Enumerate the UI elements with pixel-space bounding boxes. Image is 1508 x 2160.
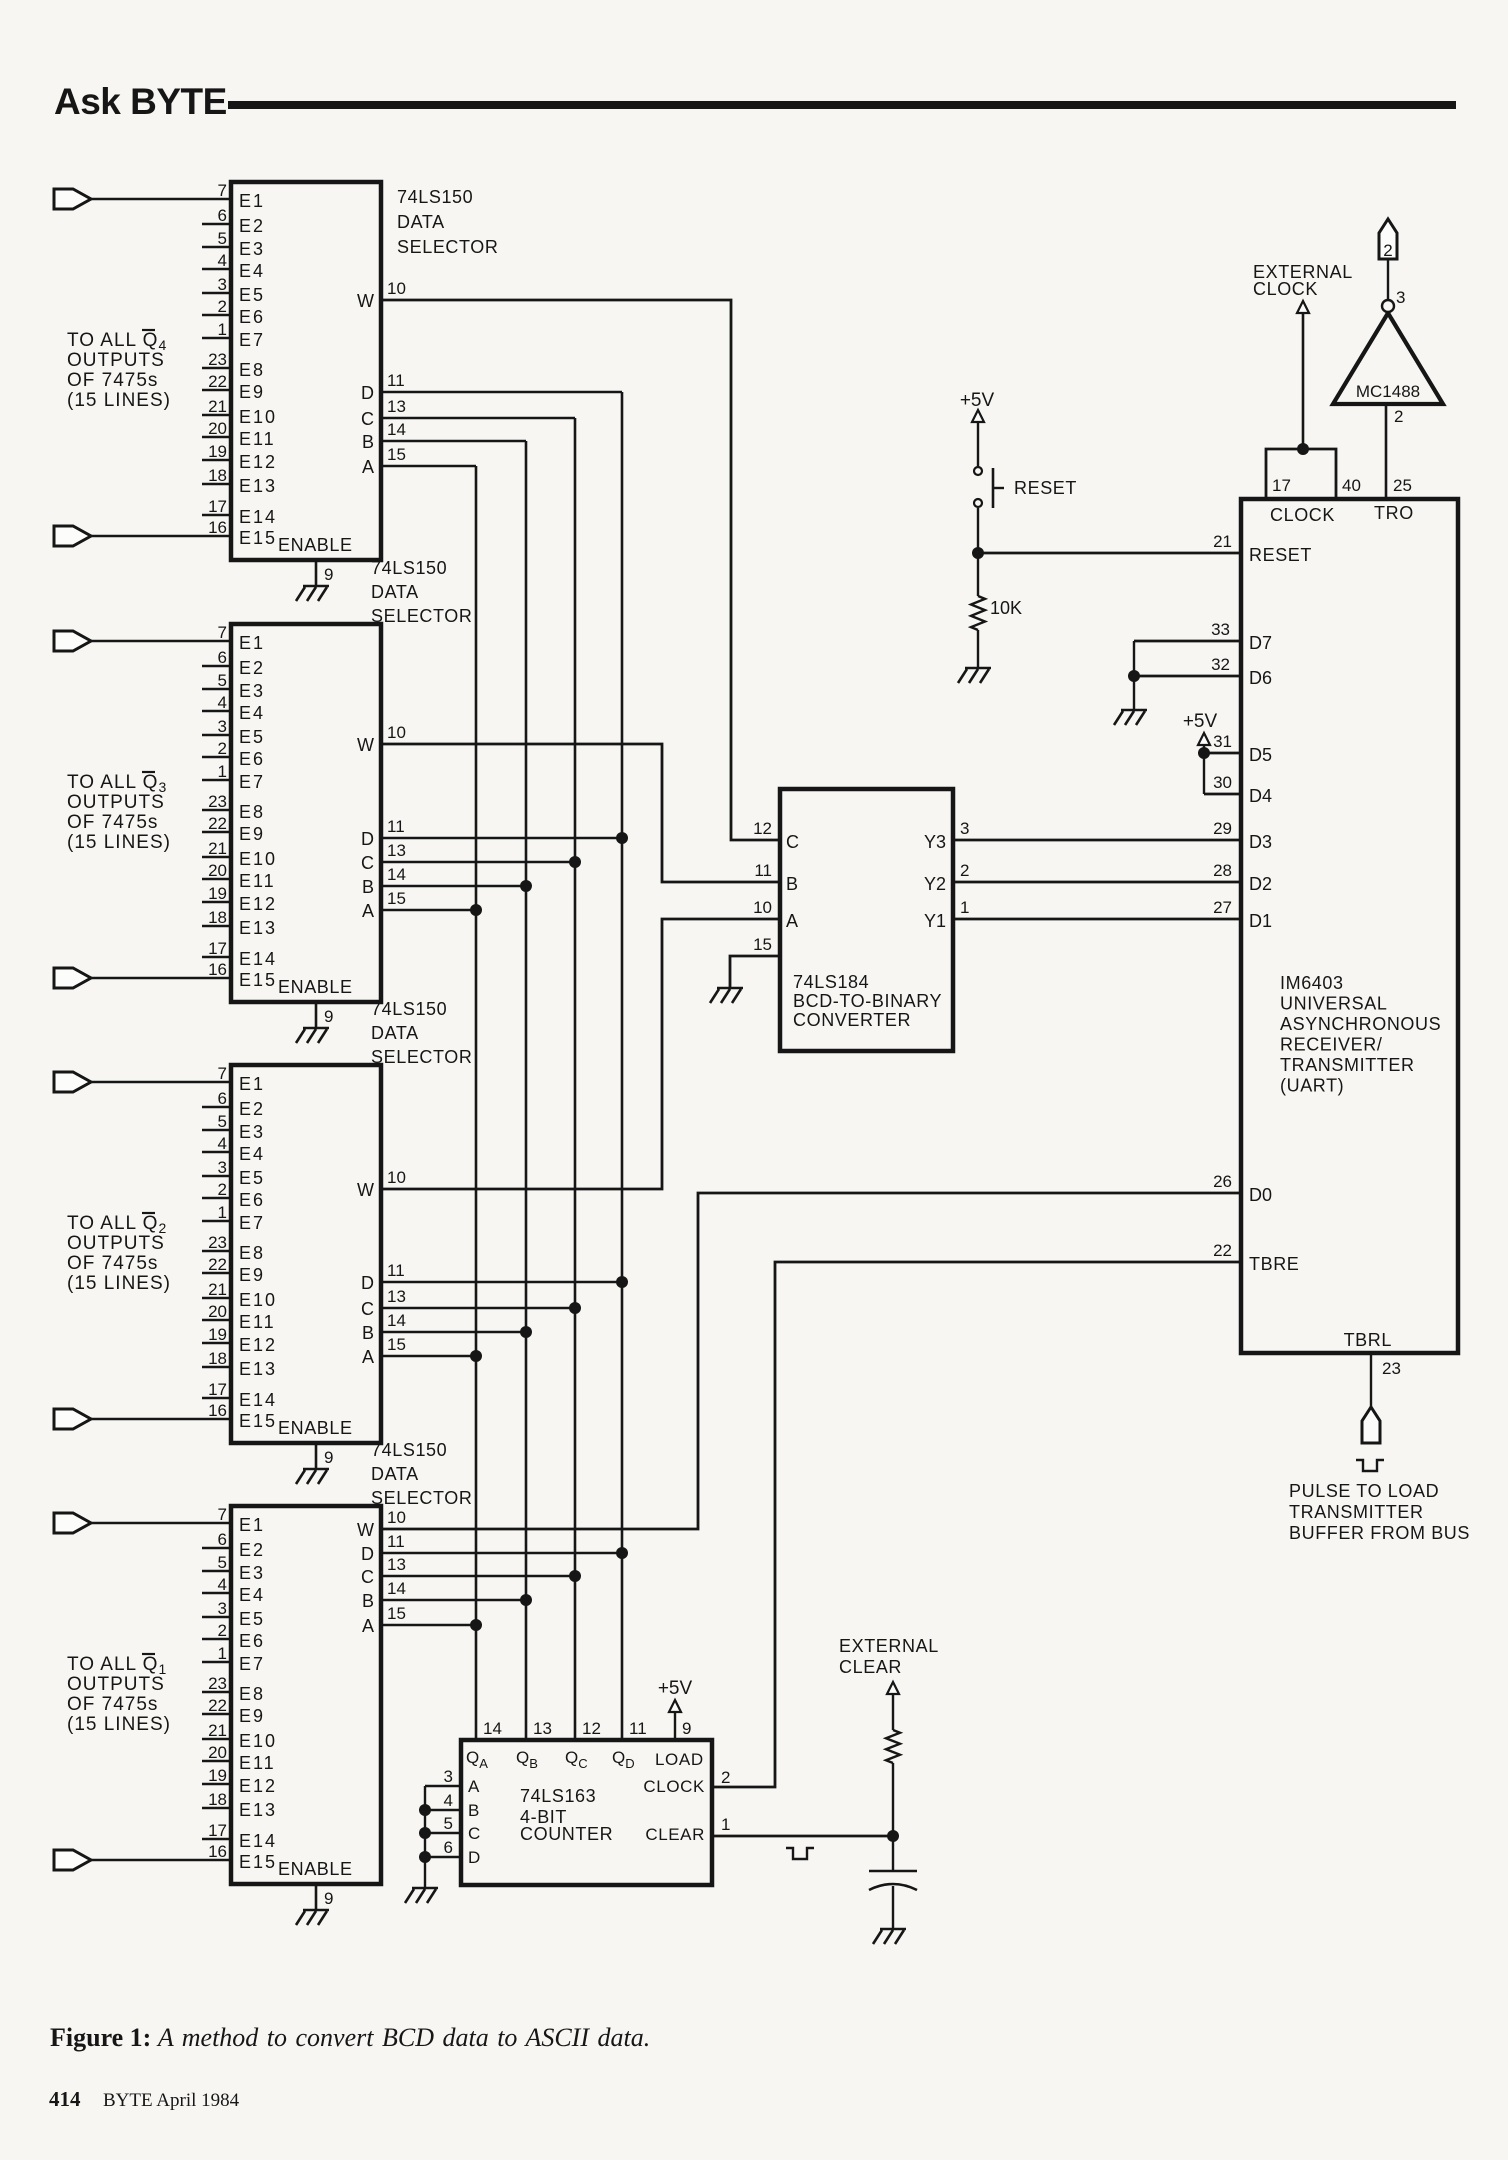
svg-text:13: 13 <box>387 1555 406 1574</box>
svg-text:CONVERTER: CONVERTER <box>793 1010 911 1030</box>
svg-text:9: 9 <box>324 565 333 584</box>
junction U8 D <box>419 1851 431 1863</box>
svg-text:16: 16 <box>208 1842 227 1861</box>
svg-text:74LS150: 74LS150 <box>397 187 473 207</box>
svg-text:A: A <box>362 901 374 921</box>
wire U3 D to bus <box>381 1281 622 1284</box>
svg-text:(15 LINES): (15 LINES) <box>67 1714 171 1735</box>
U2 pin 22 E9 stub <box>202 831 231 834</box>
U1 pin 7 E1 input wire from pointer <box>54 189 91 209</box>
U2 pin 7 E1 input wire from pointer <box>54 631 91 651</box>
svg-text:LOAD: LOAD <box>655 1750 704 1769</box>
svg-text:OUTPUTS: OUTPUTS <box>67 350 165 371</box>
ground below U8 inputs <box>412 1887 438 1890</box>
svg-text:3: 3 <box>218 1158 227 1177</box>
svg-text:20: 20 <box>208 861 227 880</box>
U4 pin 5 E3 stub <box>202 1570 231 1573</box>
svg-text:RECEIVER/: RECEIVER/ <box>1280 1035 1382 1055</box>
svg-text:E11: E11 <box>239 1753 276 1773</box>
svg-text:+5V: +5V <box>960 390 995 411</box>
svg-text:29: 29 <box>1213 819 1232 838</box>
svg-text:23: 23 <box>208 792 227 811</box>
svg-text:E13: E13 <box>239 918 277 938</box>
junction U2 C <box>569 856 581 868</box>
connector flag TBRL <box>1362 1407 1380 1443</box>
svg-text:21: 21 <box>208 839 227 858</box>
svg-text:D1: D1 <box>1249 911 1272 931</box>
svg-text:COUNTER: COUNTER <box>520 1824 613 1844</box>
U4 pin 16 E15 input wire from pointer <box>54 1850 91 1870</box>
svg-text:DATA: DATA <box>371 1023 419 1043</box>
wire U3 C to bus <box>381 1307 575 1310</box>
U8 inputs A B C D pins 3 4 5 6 <box>425 1785 461 1787</box>
svg-text:3: 3 <box>444 1767 453 1786</box>
svg-text:D: D <box>468 1848 480 1867</box>
svg-text:OF 7475s: OF 7475s <box>67 370 158 391</box>
svg-text:19: 19 <box>208 884 227 903</box>
U3 pin 16 E15 input wire from pointer <box>54 1409 91 1429</box>
svg-text:18: 18 <box>208 908 227 927</box>
select bus QB vertical wire <box>525 441 528 1740</box>
junction U2 B <box>520 880 532 892</box>
U6 TBRE pin 22 wire to counter clock <box>712 1262 1241 1787</box>
svg-text:E11: E11 <box>239 1312 276 1332</box>
pulse waveform symbol clear <box>786 1848 814 1859</box>
svg-text:1: 1 <box>218 320 227 339</box>
svg-text:17: 17 <box>208 1821 227 1840</box>
svg-text:E8: E8 <box>239 1243 265 1263</box>
svg-text:W: W <box>357 735 374 755</box>
wire U4 B to bus <box>381 1599 526 1602</box>
capacitor C1 <box>892 1836 894 1871</box>
svg-text:E7: E7 <box>239 772 265 792</box>
svg-text:ENABLE: ENABLE <box>278 1418 353 1438</box>
U1 pin 20 E11 stub <box>202 436 231 439</box>
svg-text:+5V: +5V <box>1183 711 1218 732</box>
svg-text:14: 14 <box>483 1719 502 1738</box>
svg-text:D7: D7 <box>1249 633 1272 653</box>
U7 inverting output bubble pin 3 <box>1382 300 1394 312</box>
svg-text:BUFFER FROM BUS: BUFFER FROM BUS <box>1289 1523 1470 1543</box>
svg-text:(UART): (UART) <box>1280 1076 1344 1096</box>
svg-text:SELECTOR: SELECTOR <box>371 1047 473 1067</box>
svg-text:19: 19 <box>208 1325 227 1344</box>
svg-text:CLEAR: CLEAR <box>645 1825 705 1844</box>
svg-text:E2: E2 <box>239 658 265 678</box>
svg-text:C: C <box>361 853 374 873</box>
svg-text:414: 414 <box>49 2087 81 2111</box>
wire U1 W output to converter C input <box>381 300 780 840</box>
junction U3 B <box>520 1326 532 1338</box>
U2 pin 3 E5 stub <box>202 734 231 737</box>
svg-text:E14: E14 <box>239 1390 277 1410</box>
svg-text:C: C <box>468 1824 480 1843</box>
svg-text:23: 23 <box>1382 1359 1401 1378</box>
svg-text:2: 2 <box>218 739 227 758</box>
svg-text:74LS150: 74LS150 <box>371 1440 447 1460</box>
svg-text:B: B <box>362 1591 374 1611</box>
junction U4 C <box>569 1570 581 1582</box>
svg-text:IM6403: IM6403 <box>1280 973 1344 993</box>
svg-text:D4: D4 <box>1249 786 1272 806</box>
svg-text:21: 21 <box>1213 532 1232 551</box>
svg-text:2: 2 <box>1394 407 1403 426</box>
svg-text:17: 17 <box>208 1380 227 1399</box>
svg-text:E4: E4 <box>239 703 265 723</box>
svg-text:28: 28 <box>1213 861 1232 880</box>
U1 pin 18 E13 stub <box>202 483 231 486</box>
svg-text:ENABLE: ENABLE <box>278 535 353 555</box>
U4 pin 18 E13 stub <box>202 1807 231 1810</box>
svg-text:DATA: DATA <box>397 212 445 232</box>
U2 pin 2 E6 stub <box>202 756 231 759</box>
svg-text:D: D <box>361 1544 374 1564</box>
svg-text:Y1: Y1 <box>924 911 946 931</box>
svg-text:PULSE TO LOAD: PULSE TO LOAD <box>1289 1481 1439 1501</box>
svg-text:13: 13 <box>387 1287 406 1306</box>
svg-text:22: 22 <box>1213 1241 1232 1260</box>
svg-text:5: 5 <box>218 229 227 248</box>
wire U4 C to bus <box>381 1575 575 1578</box>
pushbutton RESET switch <box>974 467 982 475</box>
junction U4 D <box>616 1547 628 1559</box>
svg-text:RESET: RESET <box>1249 545 1312 565</box>
U1 pin 19 E12 stub <box>202 459 231 462</box>
svg-text:E11: E11 <box>239 871 276 891</box>
converter U5 74LS184 body <box>780 789 953 1051</box>
svg-text:E13: E13 <box>239 476 277 496</box>
svg-text:2: 2 <box>218 297 227 316</box>
svg-text:E7: E7 <box>239 1213 265 1233</box>
svg-text:14: 14 <box>387 1579 406 1598</box>
junction U3 A <box>470 1350 482 1362</box>
svg-text:SELECTOR: SELECTOR <box>397 237 499 257</box>
svg-text:Figure 1: A method to convert: Figure 1: A method to convert BCD data t… <box>50 2023 650 2052</box>
U2 pin 19 E12 stub <box>202 901 231 904</box>
svg-text:23: 23 <box>208 1233 227 1252</box>
U4 pin 3 E5 stub <box>202 1616 231 1619</box>
svg-text:23: 23 <box>208 1674 227 1693</box>
svg-text:6: 6 <box>218 206 227 225</box>
svg-text:E13: E13 <box>239 1800 277 1820</box>
svg-text:TBRE: TBRE <box>1249 1254 1299 1274</box>
svg-text:Ask BYTE: Ask BYTE <box>54 81 227 122</box>
junction U4 B <box>520 1594 532 1606</box>
svg-text:21: 21 <box>208 1280 227 1299</box>
resistor R2 external clear pull <box>892 1763 894 1836</box>
svg-text:9: 9 <box>682 1719 691 1738</box>
svg-text:23: 23 <box>208 350 227 369</box>
svg-text:16: 16 <box>208 1401 227 1420</box>
U1 pin 3 E5 stub <box>202 292 231 295</box>
ground below U3 <box>303 1468 329 1471</box>
svg-text:2: 2 <box>1383 241 1392 260</box>
svg-text:E1: E1 <box>239 633 265 653</box>
junction U3 D <box>616 1276 628 1288</box>
svg-text:18: 18 <box>208 1349 227 1368</box>
svg-text:ENABLE: ENABLE <box>278 977 353 997</box>
svg-text:14: 14 <box>387 1311 406 1330</box>
svg-text:15: 15 <box>753 935 772 954</box>
U2 pin 6 E2 stub <box>202 665 231 668</box>
svg-text:E1: E1 <box>239 1515 265 1535</box>
junction external clear node <box>887 1830 899 1842</box>
line driver U7 MC1488 triangle <box>1333 313 1443 404</box>
svg-text:E6: E6 <box>239 1190 265 1210</box>
U1 pin 22 E9 stub <box>202 389 231 392</box>
svg-text:E6: E6 <box>239 1631 265 1651</box>
junction D5 +5V <box>1198 747 1210 759</box>
U5 pin 15 stub to ground <box>730 956 780 988</box>
svg-text:OF 7475s: OF 7475s <box>67 1253 158 1274</box>
U3 pin 23 E8 stub <box>202 1250 231 1253</box>
U3 pin 5 E3 stub <box>202 1129 231 1132</box>
svg-text:10K: 10K <box>990 598 1022 618</box>
svg-text:E2: E2 <box>239 216 265 236</box>
wire U2 C to bus <box>381 861 575 864</box>
svg-text:E9: E9 <box>239 382 265 402</box>
U6 label CLOCK pin 17 and 40 bracket <box>1266 449 1336 499</box>
U4 pin 22 E9 stub <box>202 1713 231 1716</box>
svg-text:D: D <box>361 1273 374 1293</box>
data selector U3 74LS150 body <box>231 1065 381 1443</box>
U1 pin 23 E8 stub <box>202 367 231 370</box>
svg-text:4: 4 <box>218 1575 227 1594</box>
svg-text:E9: E9 <box>239 824 265 844</box>
svg-text:CLOCK: CLOCK <box>1270 505 1335 525</box>
svg-text:E1: E1 <box>239 191 265 211</box>
svg-text:E12: E12 <box>239 1776 277 1796</box>
svg-text:OF 7475s: OF 7475s <box>67 812 158 833</box>
svg-text:E8: E8 <box>239 1684 265 1704</box>
svg-text:D5: D5 <box>1249 745 1272 765</box>
svg-text:6: 6 <box>218 1089 227 1108</box>
svg-text:4: 4 <box>218 1134 227 1153</box>
svg-text:A: A <box>786 911 798 931</box>
svg-text:7: 7 <box>218 181 227 200</box>
svg-text:BCD-TO-BINARY: BCD-TO-BINARY <box>793 991 942 1011</box>
svg-text:1: 1 <box>960 898 969 917</box>
svg-text:32: 32 <box>1211 655 1230 674</box>
svg-text:D0: D0 <box>1249 1185 1272 1205</box>
svg-text:DATA: DATA <box>371 1464 419 1484</box>
svg-text:12: 12 <box>753 819 772 838</box>
wire U3 W output to converter A input <box>381 919 780 1189</box>
svg-text:1: 1 <box>218 1644 227 1663</box>
junction U3 C <box>569 1302 581 1314</box>
counter U8 74LS163 body <box>461 1740 712 1885</box>
svg-text:RESET: RESET <box>1014 478 1077 498</box>
svg-text:1: 1 <box>721 1815 730 1834</box>
svg-text:19: 19 <box>208 1766 227 1785</box>
wire joining U8 ABCD inputs <box>424 1786 426 1888</box>
svg-text:B: B <box>786 874 798 894</box>
connector flag 2 <box>1379 219 1397 259</box>
svg-text:E5: E5 <box>239 285 265 305</box>
U2 pin 9 enable ground stub <box>315 1002 318 1028</box>
U4 pin 1 E7 stub <box>202 1661 231 1664</box>
svg-text:E10: E10 <box>239 407 277 427</box>
svg-text:E5: E5 <box>239 1168 265 1188</box>
svg-text:12: 12 <box>582 1719 601 1738</box>
U3 pin 3 E5 stub <box>202 1175 231 1178</box>
wire U1 A output to bus top corner <box>381 465 476 468</box>
svg-text:25: 25 <box>1393 476 1412 495</box>
U4 pin 19 E12 stub <box>202 1783 231 1786</box>
svg-text:E15: E15 <box>239 970 277 990</box>
svg-text:9: 9 <box>324 1448 333 1467</box>
wire U4 D to bus <box>381 1552 622 1555</box>
wire U1 B output to bus top corner <box>381 440 526 443</box>
svg-text:E2: E2 <box>239 1540 265 1560</box>
wire U2 W output to converter B input <box>381 744 780 882</box>
wire U3 B to bus <box>381 1331 526 1334</box>
svg-text:10: 10 <box>753 898 772 917</box>
U6 D5 pin 31 wire <box>1204 752 1241 755</box>
svg-text:MC1488: MC1488 <box>1356 382 1420 401</box>
U4 pin 4 E4 stub <box>202 1592 231 1595</box>
svg-text:D3: D3 <box>1249 832 1272 852</box>
svg-text:C: C <box>361 1567 374 1587</box>
U3 pin 17 E14 stub <box>202 1397 231 1400</box>
svg-text:13: 13 <box>387 841 406 860</box>
svg-text:B: B <box>362 432 374 452</box>
svg-text:10: 10 <box>387 723 406 742</box>
svg-text:TRANSMITTER: TRANSMITTER <box>1280 1055 1415 1075</box>
junction U2 D <box>616 832 628 844</box>
svg-text:B: B <box>362 877 374 897</box>
wire U2 D to bus <box>381 837 622 840</box>
junction U8 B <box>419 1804 431 1816</box>
svg-text:A: A <box>362 1616 374 1636</box>
svg-text:17: 17 <box>1272 476 1291 495</box>
svg-text:22: 22 <box>208 814 227 833</box>
svg-text:A: A <box>362 457 374 477</box>
UART U6 IM6403 body <box>1241 499 1458 1353</box>
svg-text:B: B <box>362 1323 374 1343</box>
svg-text:18: 18 <box>208 1790 227 1809</box>
U4 pin 17 E14 stub <box>202 1838 231 1841</box>
svg-text:E15: E15 <box>239 1411 277 1431</box>
svg-text:C: C <box>361 1299 374 1319</box>
wire U2 B to bus <box>381 885 526 888</box>
svg-text:16: 16 <box>208 518 227 537</box>
U6 RESET input pin 21 wire <box>980 552 1241 555</box>
svg-text:UNIVERSAL: UNIVERSAL <box>1280 994 1387 1014</box>
svg-text:TBRL: TBRL <box>1344 1330 1392 1350</box>
U4 pin 7 E1 input wire from pointer <box>54 1513 91 1533</box>
svg-text:10: 10 <box>387 279 406 298</box>
svg-text:6: 6 <box>444 1838 453 1857</box>
wire D7-D6 to ground <box>1133 641 1135 710</box>
svg-text:E1: E1 <box>239 1074 265 1094</box>
svg-text:E12: E12 <box>239 1335 277 1355</box>
svg-text:17: 17 <box>208 939 227 958</box>
svg-text:E5: E5 <box>239 727 265 747</box>
svg-text:7: 7 <box>218 1064 227 1083</box>
svg-text:74LS163: 74LS163 <box>520 1786 596 1806</box>
svg-text:E15: E15 <box>239 1852 277 1872</box>
svg-text:2: 2 <box>218 1621 227 1640</box>
svg-text:A: A <box>362 1347 374 1367</box>
U4 pin 2 E6 stub <box>202 1638 231 1641</box>
svg-text:E9: E9 <box>239 1265 265 1285</box>
svg-text:D6: D6 <box>1249 668 1272 688</box>
svg-text:E14: E14 <box>239 507 277 527</box>
svg-text:3: 3 <box>218 275 227 294</box>
svg-text:5: 5 <box>218 1553 227 1572</box>
svg-text:11: 11 <box>387 371 405 390</box>
U1 pin 9 enable ground stub <box>315 560 318 586</box>
junction U2 A <box>470 904 482 916</box>
svg-text:4: 4 <box>444 1791 453 1810</box>
svg-text:15: 15 <box>387 1604 406 1623</box>
svg-text:4: 4 <box>218 693 227 712</box>
svg-text:14: 14 <box>387 420 406 439</box>
svg-text:Y3: Y3 <box>924 832 946 852</box>
wire switch to reset node <box>977 508 979 553</box>
svg-text:CLOCK: CLOCK <box>1253 279 1318 299</box>
svg-text:9: 9 <box>324 1007 333 1026</box>
svg-text:4: 4 <box>218 251 227 270</box>
svg-text:30: 30 <box>1213 773 1232 792</box>
svg-text:W: W <box>357 291 374 311</box>
svg-text:27: 27 <box>1213 898 1232 917</box>
wire U7 output to connector flag 2 <box>1387 259 1389 300</box>
svg-text:74LS150: 74LS150 <box>371 558 447 578</box>
svg-text:(15 LINES): (15 LINES) <box>67 390 171 411</box>
svg-text:9: 9 <box>324 1889 333 1908</box>
svg-text:33: 33 <box>1211 620 1230 639</box>
svg-text:E4: E4 <box>239 261 265 281</box>
svg-text:20: 20 <box>208 1302 227 1321</box>
svg-text:BYTE April 1984: BYTE April 1984 <box>103 2090 240 2111</box>
U2 pin 20 E11 stub <box>202 878 231 881</box>
svg-text:22: 22 <box>208 372 227 391</box>
svg-text:E8: E8 <box>239 360 265 380</box>
data selector U4 74LS150 body <box>231 1506 381 1884</box>
svg-text:21: 21 <box>208 1721 227 1740</box>
svg-text:E2: E2 <box>239 1099 265 1119</box>
ground below U2 <box>303 1027 329 1030</box>
ground at U5 pin 15 <box>717 987 743 990</box>
ground for D7 D6 <box>1121 709 1147 712</box>
data selector U1 74LS150 body <box>231 182 381 560</box>
ground below U1 <box>303 585 329 588</box>
svg-text:5: 5 <box>218 671 227 690</box>
svg-text:19: 19 <box>208 442 227 461</box>
svg-text:CLEAR: CLEAR <box>839 1657 902 1677</box>
svg-text:1: 1 <box>218 762 227 781</box>
svg-text:SELECTOR: SELECTOR <box>371 1488 473 1508</box>
U2 pin 21 E10 stub <box>202 856 231 859</box>
svg-text:E3: E3 <box>239 1122 265 1142</box>
svg-text:3: 3 <box>960 819 969 838</box>
select bus QD vertical wire <box>621 392 624 1740</box>
svg-text:ASYNCHRONOUS: ASYNCHRONOUS <box>1280 1014 1441 1034</box>
svg-text:C: C <box>361 409 374 429</box>
svg-text:EXTERNAL: EXTERNAL <box>839 1636 939 1656</box>
U1 pin 5 E3 stub <box>202 246 231 249</box>
svg-text:E14: E14 <box>239 1831 277 1851</box>
svg-text:22: 22 <box>208 1696 227 1715</box>
U3 pin 4 E4 stub <box>202 1151 231 1154</box>
svg-text:20: 20 <box>208 419 227 438</box>
svg-text:15: 15 <box>387 1335 406 1354</box>
svg-text:11: 11 <box>387 1532 405 1551</box>
svg-text:E6: E6 <box>239 749 265 769</box>
svg-text:+5V: +5V <box>658 1678 693 1699</box>
